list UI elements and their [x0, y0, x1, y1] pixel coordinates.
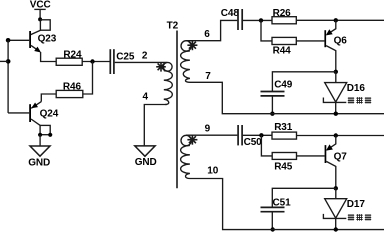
transistor Q6 emitter diagonal	[327, 20, 336, 34]
node Q7 collector junction dot	[334, 186, 338, 190]
ground GND2	[135, 146, 155, 156]
wire to Q24 base	[8, 112, 29, 114]
wire C49 to bottom rail	[271, 97, 273, 114]
label 稳压管 (D17)	[348, 214, 371, 221]
diode D16 anode lead	[335, 72, 337, 83]
transistor Q6 base bar	[324, 30, 326, 47]
svg-text:7: 7	[205, 71, 211, 82]
wire VCC to node	[39, 9, 41, 19]
diode D16 cathode lead	[335, 102, 337, 113]
transistor Q7 emitter diagonal	[327, 136, 336, 150]
capacitor C49 plates	[261, 91, 285, 93]
wire left vertical rail	[7, 40, 9, 113]
wire pin 7 to rail	[190, 82, 384, 113]
secondary winding 1 phase star	[187, 40, 197, 50]
wire Q23 base to left rail	[8, 39, 29, 41]
node C51 rail junction dot	[271, 227, 275, 231]
wire Q23 emitter down and right to R24	[41, 52, 57, 62]
wire R46 to Q24 emitter	[41, 94, 56, 102]
primary winding humps	[164, 71, 173, 105]
wire pin 10 to rail	[190, 179, 384, 230]
wire R44 to Q6 base	[296, 40, 324, 42]
transistor Q24 emitter diagonal	[31, 102, 41, 109]
wire box to ground	[39, 135, 41, 146]
wire pin 9 to C50	[186, 134, 237, 136]
node C49 rail junction dot	[270, 112, 274, 116]
transistor Q7 collector diagonal	[326, 161, 336, 188]
node R24/C25/R46 junction dot	[90, 59, 94, 63]
transformer core	[176, 31, 178, 189]
wire R24 to node	[82, 61, 109, 63]
svg-text:GND: GND	[28, 158, 50, 169]
node Q6 emitter rail dot	[334, 18, 338, 22]
node VCC junction dot	[38, 17, 42, 21]
svg-text:6: 6	[204, 29, 210, 40]
svg-text:C48: C48	[221, 8, 240, 19]
svg-text:R31: R31	[274, 122, 293, 133]
wire node down to R46	[83, 62, 93, 95]
diode D17 triangle	[325, 199, 347, 218]
svg-text:2: 2	[142, 51, 148, 62]
transistor Q6 emitter arrowhead	[326, 29, 333, 35]
svg-text:C50: C50	[244, 137, 263, 148]
ground GND1	[30, 146, 50, 156]
node left stub junction dot	[6, 59, 11, 64]
node D16 rail junction dot	[334, 112, 338, 116]
node box bottom-right dot	[48, 133, 52, 137]
wire C48 to node	[243, 19, 272, 21]
node C50/R31/R45 junction dot	[259, 133, 263, 137]
wire pin4 to ground	[144, 105, 167, 147]
label 稳压管 (D16)	[348, 97, 371, 104]
primary winding curl	[163, 62, 172, 71]
svg-text:10: 10	[207, 165, 218, 176]
node Q6 collector junction dot	[334, 70, 338, 74]
svg-text:GND: GND	[135, 157, 157, 168]
diode D17 anode lead	[335, 188, 337, 198]
transistor Q23 collector diagonal	[31, 30, 41, 35]
resistor R45	[272, 153, 296, 160]
node base-rail junction dot	[6, 38, 11, 43]
secondary winding 2 humps	[181, 146, 190, 179]
svg-text:4: 4	[143, 92, 149, 103]
wire R26 to Q6 emitter rail	[296, 19, 384, 21]
svg-text:9: 9	[205, 123, 211, 134]
wire node down to R45	[261, 135, 272, 156]
secondary winding 2 curl	[181, 135, 191, 145]
box at Q23 collector	[40, 20, 50, 30]
wire C50 to node	[243, 134, 272, 136]
node D17 rail junction dot	[334, 227, 338, 231]
transistor Q7 emitter arrowhead	[326, 144, 333, 150]
resistor R46	[56, 90, 83, 97]
wire C51 to bottom rail	[271, 212, 273, 229]
resistor R26	[272, 17, 296, 24]
transistor Q23 emitter diagonal	[31, 45, 40, 51]
transistor Q24 base bar	[29, 104, 31, 122]
diode D16 triangle	[325, 83, 347, 102]
transistor Q6 collector diagonal	[326, 46, 336, 72]
resistor R24	[56, 58, 82, 65]
node C48/R26/R44 junction dot	[259, 18, 263, 22]
wire stub to left edge	[0, 60, 8, 62]
wire R31 to Q7 emitter rail	[297, 135, 384, 137]
wire Q6 collector to C49	[272, 72, 335, 91]
svg-text:T2: T2	[167, 21, 179, 32]
svg-text:Q24: Q24	[40, 108, 59, 119]
svg-text:C25: C25	[116, 51, 135, 62]
wire pin 6 to C48	[186, 20, 237, 40]
svg-text:D16: D16	[347, 83, 366, 94]
svg-text:R44: R44	[273, 46, 292, 57]
wire C25 to primary winding	[115, 61, 167, 63]
secondary winding 1 curl	[181, 41, 191, 51]
VCC terminal bar	[34, 8, 45, 10]
svg-text:R45: R45	[274, 162, 293, 173]
wire Q7 collector to C51	[272, 188, 336, 207]
svg-text:C49: C49	[274, 80, 293, 91]
capacitor C25 plates	[109, 49, 111, 74]
transistor Q23 emitter arrowhead	[34, 47, 41, 53]
capacitor C50 plates	[237, 125, 239, 145]
capacitor C48 plates	[237, 9, 239, 30]
transistor Q7 base bar	[325, 145, 327, 163]
diode D17 cathode lead	[335, 218, 337, 229]
resistor R44	[272, 37, 296, 44]
wire node down to R44	[261, 20, 272, 41]
node box bottom-left dot	[38, 133, 42, 137]
capacitor C51 plates	[261, 206, 285, 208]
svg-text:Q23: Q23	[38, 34, 57, 45]
svg-text:D17: D17	[347, 199, 366, 210]
diode D16 zener bar	[323, 98, 346, 103]
box at Q24 collector	[40, 125, 50, 134]
secondary winding 1 humps	[181, 51, 190, 82]
svg-text:Q7: Q7	[334, 151, 348, 162]
resistor R31	[272, 132, 297, 139]
diode D17 zener bar	[323, 214, 346, 219]
node Q7 emitter rail dot	[334, 133, 338, 137]
svg-text:Q6: Q6	[334, 36, 348, 47]
transistor Q23 base bar	[29, 31, 31, 48]
wire R45 to Q7 base	[297, 155, 325, 157]
primary winding phase star	[156, 62, 166, 72]
transistor Q24 collector diagonal	[31, 119, 40, 125]
transistor Q24 emitter arrowhead	[31, 103, 38, 109]
secondary winding 2 phase star	[187, 135, 197, 145]
